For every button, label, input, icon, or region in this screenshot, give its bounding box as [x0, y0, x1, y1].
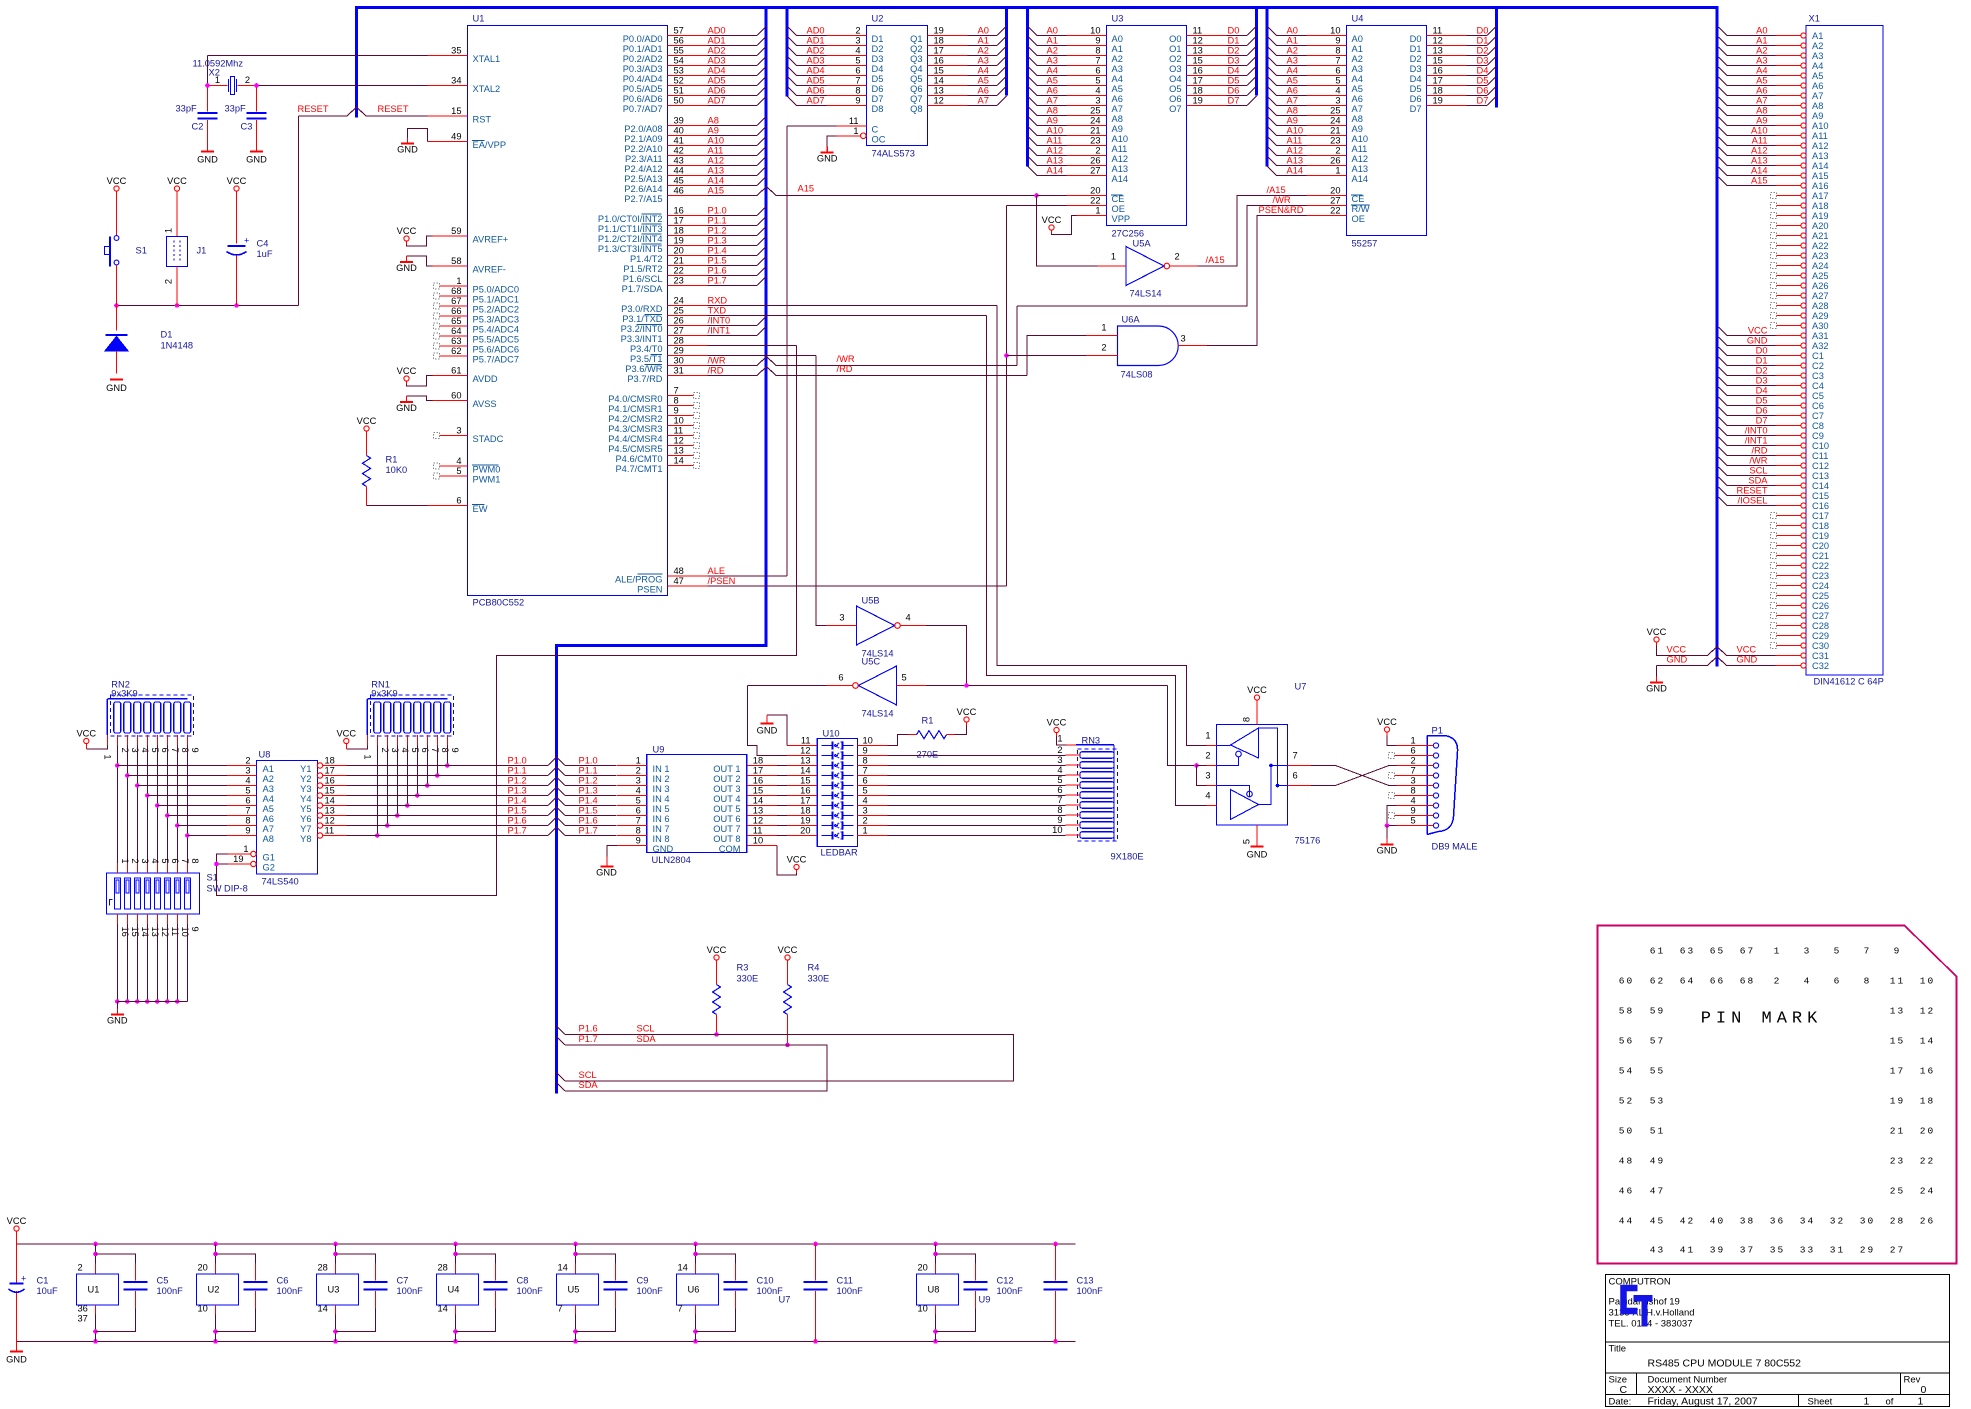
svg-text:1: 1 — [1335, 166, 1340, 176]
wire U9 GND to ground — [607, 846, 617, 857]
wire A12 to bus — [708, 165, 758, 167]
svg-text:4: 4 — [1057, 765, 1062, 775]
svg-text:VCC: VCC — [787, 855, 807, 865]
bus: vertical at x=1496 (U4 data outputs) — [1495, 6, 1498, 108]
svg-text:39: 39 — [674, 116, 684, 126]
wire /WR breakout from bus to X1 C12 — [1719, 457, 1728, 466]
svg-text:13: 13 — [325, 806, 335, 816]
svg-text:AD7: AD7 — [807, 96, 825, 106]
svg-text:D1: D1 — [872, 34, 884, 44]
svg-text:4: 4 — [1804, 976, 1812, 987]
P1 pin 3 — [1433, 783, 1438, 788]
svg-text:50: 50 — [1619, 1126, 1634, 1137]
VCC to P1 pin 1 — [1384, 727, 1389, 732]
svg-text:52: 52 — [1619, 1096, 1634, 1107]
RN3 pin 4 — [1066, 774, 1081, 776]
svg-text:P1.3: P1.3 — [508, 786, 527, 796]
pin mark diagram box — [1598, 926, 1957, 1264]
U3 pin 3 A7 address input — [1028, 97, 1038, 107]
svg-text:29: 29 — [1860, 1245, 1875, 1256]
U10 LED element 1 — [822, 745, 833, 747]
X1 pin A9 — [1801, 113, 1806, 118]
svg-text:AD0: AD0 — [807, 26, 825, 36]
wire P1.1 from bus to U9 IN2 — [557, 767, 566, 776]
junction RN2 col 6 / U8 input row — [155, 803, 160, 808]
svg-text:6: 6 — [1293, 771, 1298, 781]
svg-text:20: 20 — [1090, 186, 1100, 196]
svg-text:A11: A11 — [1112, 144, 1128, 154]
U9 pin 11 OUT 8 — [747, 835, 777, 837]
svg-text:A15: A15 — [708, 186, 725, 196]
svg-text:16: 16 — [1920, 1066, 1935, 1077]
svg-text:53: 53 — [674, 66, 684, 76]
svg-text:31: 31 — [1830, 1245, 1845, 1256]
U3 pin 18 O6 data output to D6 — [1187, 95, 1227, 97]
svg-text:31: 31 — [674, 366, 684, 376]
svg-text:24: 24 — [674, 296, 684, 306]
VCC wire to X1 C31 — [1654, 637, 1659, 642]
svg-text:7: 7 — [1293, 751, 1298, 761]
U9 pin 18 OUT 1 — [747, 765, 777, 767]
svg-text:16: 16 — [934, 56, 944, 66]
svg-text:/INT1: /INT1 — [708, 326, 731, 336]
svg-text:24: 24 — [1090, 116, 1100, 126]
svg-text:23: 23 — [1330, 136, 1340, 146]
svg-text:C7: C7 — [1812, 411, 1824, 421]
U1 pin 5 PWM1 (nc) — [440, 475, 468, 477]
svg-text:74LS08: 74LS08 — [1121, 370, 1153, 380]
svg-text:D2: D2 — [872, 44, 884, 54]
RN3 pin 3 — [1066, 764, 1081, 766]
U4 pin 10 A0 address input — [1268, 27, 1278, 37]
svg-text:17: 17 — [934, 46, 944, 56]
svg-text:16: 16 — [800, 786, 810, 796]
U1 pin 17 P1.1/CT1I/INT3 -> P1.1 — [668, 225, 708, 227]
svg-text:Y3: Y3 — [300, 784, 311, 794]
svg-text:R3: R3 — [737, 963, 749, 973]
svg-text:P4.6/CMT0: P4.6/CMT0 — [615, 454, 662, 464]
svg-text:AD4: AD4 — [708, 66, 726, 76]
U2 pin 6 D5 input from AD4 — [788, 67, 798, 77]
svg-text:7: 7 — [674, 386, 679, 396]
svg-text:8: 8 — [855, 86, 860, 96]
wires RN1 columns down to U8 output rows — [376, 746, 378, 836]
svg-text:VCC: VCC — [167, 176, 187, 186]
wire AD5 to bus — [708, 85, 758, 87]
U4 pin 16 D4 data to bus — [1427, 75, 1467, 77]
svg-text:A11: A11 — [1752, 136, 1768, 146]
svg-text:7: 7 — [1095, 56, 1100, 66]
U9 pin 14 OUT 5 — [747, 805, 777, 807]
junction RN1 col 9 / U8 output row — [445, 763, 450, 768]
svg-text:A4: A4 — [1812, 61, 1823, 71]
svg-text:37: 37 — [1740, 1245, 1755, 1256]
wire P1.3 from bus to U9 IN4 — [557, 787, 566, 796]
U2 pin 8 D7 input from AD6 — [788, 87, 798, 97]
svg-text:27C256: 27C256 — [1112, 229, 1145, 239]
svg-text:25: 25 — [1090, 106, 1100, 116]
svg-text:P4.3/CMSR3: P4.3/CMSR3 — [608, 424, 662, 434]
X1 pin A1 — [1801, 33, 1806, 38]
U4 pin 24 A9 address input — [1268, 117, 1278, 127]
svg-text:2: 2 — [1101, 343, 1106, 353]
wire A10 to bus — [708, 145, 758, 147]
svg-text:+: + — [21, 1274, 26, 1284]
X1 pin C31 — [1801, 653, 1806, 658]
U2 pin 17 Q3 output to A2 — [928, 55, 968, 57]
svg-text:GND: GND — [653, 844, 674, 854]
svg-text:3: 3 — [1411, 776, 1416, 786]
svg-text:C20: C20 — [1812, 541, 1829, 551]
X1 pin A3 — [1801, 53, 1806, 58]
svg-text:5: 5 — [1057, 775, 1062, 785]
U1 pin 18 P1.2/CT2I/INT4 -> P1.2 — [668, 235, 708, 237]
svg-text:65: 65 — [1710, 946, 1725, 957]
svg-text:P1.0: P1.0 — [708, 206, 727, 216]
svg-text:AD2: AD2 — [807, 46, 825, 56]
svg-text:A5: A5 — [978, 76, 989, 86]
wire A10 breakout from bus to X1 A11 — [1719, 127, 1728, 136]
svg-text:17: 17 — [674, 216, 684, 226]
svg-text:Sheet: Sheet — [1808, 1397, 1833, 1408]
U1 pin 43 P2.4/A12 -> A12 — [668, 165, 708, 167]
svg-text:12: 12 — [934, 96, 944, 106]
svg-text:22: 22 — [1920, 1156, 1935, 1167]
svg-text:GND: GND — [197, 155, 218, 165]
P1 pin 8 — [1433, 793, 1438, 798]
svg-text:7: 7 — [430, 748, 440, 753]
wire U8 input A3 row — [137, 785, 227, 787]
P1 pin 5 — [1433, 823, 1438, 828]
wire AD6 to bus — [708, 95, 758, 97]
svg-text:A8: A8 — [263, 834, 274, 844]
svg-text:3: 3 — [130, 748, 140, 753]
junction RN2 col 7 / U8 input row — [165, 813, 170, 818]
U1 pin 62 P5.7/ADC7 (nc) — [440, 355, 468, 357]
svg-text:52: 52 — [674, 76, 684, 86]
svg-text:U5B: U5B — [862, 596, 880, 606]
U7 pin 2 /RE — [1207, 765, 1217, 767]
svg-text:9: 9 — [863, 746, 868, 756]
svg-text:PSEN: PSEN — [637, 585, 662, 595]
svg-text:5: 5 — [150, 748, 160, 753]
U3 pin 5 A5 address input — [1028, 77, 1038, 87]
svg-text:P3.4/T0: P3.4/T0 — [630, 344, 663, 354]
ground to U10 pin 11 — [767, 715, 787, 746]
svg-text:AVREF+: AVREF+ — [473, 235, 509, 245]
U8 pin 17 Y2 output with bubble — [317, 773, 322, 778]
svg-text:OUT 2: OUT 2 — [713, 774, 740, 784]
svg-text:7: 7 — [863, 766, 868, 776]
svg-text:C4: C4 — [1812, 381, 1824, 391]
svg-text:A3: A3 — [263, 784, 274, 794]
svg-text:O1: O1 — [1169, 44, 1181, 54]
U7 pin 8 VCC — [1256, 704, 1258, 725]
junction RN1 col 3 / U8 output row — [385, 823, 390, 828]
U8 pin 9 A8 input — [227, 835, 257, 837]
X1 pin C16 — [1801, 503, 1806, 508]
svg-text:100nF: 100nF — [637, 1286, 664, 1296]
X1 A29 nc stub — [1771, 313, 1777, 319]
U1 pin 14 P4.7/CMT1 (nc) — [668, 465, 694, 467]
svg-text:D3: D3 — [1410, 64, 1422, 74]
svg-text:AD5: AD5 — [708, 76, 726, 86]
svg-text:A8: A8 — [1812, 101, 1823, 111]
U10 pin 7 (right) — [857, 775, 887, 777]
U8 pin 5 A4 input — [227, 795, 257, 797]
X1 C20 nc stub — [1771, 543, 1777, 549]
wire OUT2 to LEDBAR pin 14 — [777, 775, 787, 777]
svg-text:A14: A14 — [1751, 166, 1768, 176]
svg-text:P2.7/A15: P2.7/A15 — [624, 194, 662, 204]
X1 pin C24 — [1801, 583, 1806, 588]
svg-text:/WR: /WR — [1749, 456, 1767, 466]
svg-text:3: 3 — [140, 858, 150, 863]
capacitor C1 10uF — [10, 1283, 24, 1285]
X1 pin C11 — [1801, 453, 1806, 458]
svg-text:9: 9 — [245, 826, 250, 836]
svg-text:/WR: /WR — [1273, 195, 1291, 205]
svg-text:GND: GND — [6, 1355, 27, 1365]
svg-text:IN 7: IN 7 — [653, 824, 670, 834]
inverter U5C 74LS14 (mirrored) — [859, 666, 897, 705]
svg-text:2: 2 — [1335, 146, 1340, 156]
U1 pin 50 P0.7/AD7 -> AD7 — [668, 105, 708, 107]
U1 pin 12 P4.5/CMSR5 (nc) — [668, 445, 694, 447]
U1 pin 41 P2.2/A10 -> A10 — [668, 145, 708, 147]
svg-text:10: 10 — [1052, 825, 1062, 835]
U3 pin 27 A14 address input — [1028, 167, 1038, 177]
svg-text:IN 3: IN 3 — [653, 784, 670, 794]
U1 pin 25 P3.1/TXD — [668, 315, 708, 317]
wire AD3 to bus — [708, 65, 758, 67]
svg-text:16: 16 — [753, 776, 763, 786]
svg-text:J1: J1 — [197, 246, 207, 256]
svg-text:A4: A4 — [1287, 66, 1298, 76]
U9 pin 4 IN 4 — [617, 795, 647, 797]
wire P1.5 to bus — [708, 265, 758, 267]
U10 pin 2 (right) — [857, 825, 887, 827]
svg-text:A9: A9 — [1047, 116, 1058, 126]
wire A15 to U3 CE — [1037, 195, 1067, 197]
svg-text:25: 25 — [1330, 106, 1340, 116]
X1 A30 nc stub — [1771, 323, 1777, 329]
svg-text:PCB80C552: PCB80C552 — [473, 598, 525, 608]
svg-text:41: 41 — [1680, 1245, 1695, 1256]
connector X1 DIN41612 C 64P — [1806, 26, 1883, 676]
svg-text:A13: A13 — [1287, 156, 1304, 166]
wire D5 breakout from bus to X1 C6 — [1719, 397, 1728, 406]
svg-text:A0: A0 — [978, 26, 989, 36]
U3 pin 6 A4 address input — [1028, 67, 1038, 77]
U6A pin 3 output PSEN&RD — [1178, 345, 1207, 347]
U3 pin 2 A12 address input — [1028, 147, 1038, 157]
svg-text:48: 48 — [674, 566, 684, 576]
svg-text:VCC: VCC — [1748, 326, 1768, 336]
wires RN2 columns to U8 inputs and S1 — [116, 746, 118, 864]
svg-text:A9: A9 — [708, 126, 719, 136]
svg-text:19: 19 — [233, 854, 243, 864]
U2 pin 9 D8 input from AD7 — [788, 97, 798, 107]
U7 pin 7 (A) to DB9 — [1288, 765, 1312, 767]
X1 pin C13 — [1801, 473, 1806, 478]
svg-text:C22: C22 — [1812, 561, 1829, 571]
svg-text:38: 38 — [1740, 1216, 1755, 1227]
svg-text:100nF: 100nF — [837, 1286, 864, 1296]
X1 pin A8 — [1801, 103, 1806, 108]
svg-text:21: 21 — [1090, 126, 1100, 136]
svg-text:7: 7 — [558, 1304, 563, 1314]
S1 switch element 1 — [114, 878, 120, 909]
svg-text:A3: A3 — [1287, 56, 1298, 66]
svg-text:C18: C18 — [1812, 521, 1829, 531]
svg-text:47: 47 — [1650, 1186, 1665, 1197]
svg-text:9: 9 — [450, 748, 460, 753]
svg-text:15: 15 — [753, 786, 763, 796]
svg-text:8: 8 — [1864, 976, 1872, 987]
svg-text:33pF: 33pF — [176, 104, 198, 114]
wire OC to ground — [827, 136, 836, 147]
connector P1 DB9 MALE — [1427, 736, 1458, 835]
svg-text:D4: D4 — [872, 64, 884, 74]
svg-text:P1.6: P1.6 — [508, 816, 527, 826]
wire /A15 riser from U5A output to U4 CE — [1198, 196, 1307, 267]
svg-text:18: 18 — [1193, 86, 1203, 96]
svg-text:A4: A4 — [1756, 66, 1767, 76]
svg-text:100nF: 100nF — [157, 1286, 184, 1296]
svg-text:A9: A9 — [1287, 116, 1298, 126]
X1 pin A12 — [1801, 143, 1806, 148]
svg-text:2: 2 — [130, 858, 140, 863]
wire A13 breakout from bus to X1 A14 — [1719, 157, 1728, 166]
wire GND breakout from bus to X1 A32 — [1719, 337, 1728, 346]
svg-text:17: 17 — [753, 766, 763, 776]
svg-text:16: 16 — [325, 776, 335, 786]
svg-text:S1: S1 — [136, 246, 147, 256]
svg-text:A1: A1 — [1287, 36, 1298, 46]
svg-text:C19: C19 — [1812, 531, 1829, 541]
svg-text:IN 4: IN 4 — [653, 794, 670, 804]
svg-text:100nF: 100nF — [277, 1286, 304, 1296]
VCC for J1 — [174, 186, 179, 191]
junction RN1 col 2 / U8 output row — [375, 833, 380, 838]
svg-text:27: 27 — [674, 326, 684, 336]
U2 pin 1 OC output enable with bubble — [861, 133, 867, 139]
svg-text:C21: C21 — [1812, 551, 1829, 561]
svg-text:OUT 1: OUT 1 — [713, 764, 740, 774]
RN3 pin 5 — [1066, 784, 1081, 786]
svg-text:12: 12 — [753, 816, 763, 826]
svg-text:P0.7/AD7: P0.7/AD7 — [623, 104, 663, 114]
VCC for S1 — [114, 186, 119, 191]
svg-text:A6: A6 — [1352, 94, 1363, 104]
svg-text:A28: A28 — [1812, 301, 1829, 311]
U4 pin 3 A7 address input — [1268, 97, 1278, 107]
U2 pin 19 Q1 output to A0 — [928, 35, 968, 37]
U1 pin 15 RST — [428, 115, 468, 117]
wire A13 to bus — [708, 175, 758, 177]
svg-text:7: 7 — [1057, 795, 1062, 805]
wire U5C.6 to LEDBAR pin 12 — [748, 685, 827, 687]
svg-text:GND: GND — [1247, 850, 1268, 860]
svg-text:A7: A7 — [1047, 96, 1058, 106]
svg-text:4: 4 — [245, 776, 250, 786]
U10 LED element 3 — [822, 765, 833, 767]
X1 pin C1 — [1801, 353, 1806, 358]
X1 A23 nc stub — [1771, 253, 1777, 259]
wire A6 breakout from bus to X1 A7 — [1719, 87, 1728, 96]
svg-text:56: 56 — [1619, 1036, 1634, 1047]
svg-text:1: 1 — [1864, 1396, 1870, 1408]
svg-text:7: 7 — [1335, 56, 1340, 66]
X1 pin A17 — [1801, 193, 1806, 198]
U1 pin 4 PWM0 (nc) — [440, 465, 468, 467]
X1 pin C21 — [1801, 553, 1806, 558]
svg-text:34: 34 — [1800, 1216, 1815, 1227]
X1 C27 nc stub — [1771, 613, 1777, 619]
svg-text:+: + — [244, 236, 249, 246]
svg-text:14: 14 — [325, 796, 335, 806]
svg-text:14: 14 — [140, 927, 150, 937]
svg-text:14: 14 — [438, 1304, 448, 1314]
svg-text:C10: C10 — [757, 1276, 774, 1286]
svg-text:5: 5 — [245, 786, 250, 796]
svg-text:Q4: Q4 — [910, 64, 922, 74]
svg-text:6: 6 — [1834, 976, 1842, 987]
switch S1 SW DIP-8 — [107, 873, 200, 914]
svg-text:1: 1 — [1411, 736, 1416, 746]
svg-text:OUT 4: OUT 4 — [713, 794, 740, 804]
svg-text:VCC: VCC — [397, 226, 417, 236]
wire P3.5/T1 riser down to U5B input — [816, 356, 826, 626]
ground at X1 — [1656, 677, 1658, 683]
svg-text:330E: 330E — [808, 974, 830, 984]
wire S1 pin 9 to ground rail — [186, 924, 188, 1002]
wire D1 breakout from bus to X1 C2 — [1719, 357, 1728, 366]
U1 pin 20 P1.4/T2 -> P1.4 — [668, 255, 708, 257]
svg-text:C6: C6 — [1812, 401, 1824, 411]
svg-text:6: 6 — [456, 496, 461, 506]
svg-text:C2: C2 — [192, 122, 204, 132]
junction RN2 col 3 / U8 input row — [125, 773, 130, 778]
U2 pin 12 Q8 output to A7 — [928, 105, 968, 107]
U1 pin 68 P5.1/ADC1 (nc) — [440, 295, 468, 297]
wire AD4 to bus — [708, 75, 758, 77]
U8 pin 14 Y5 output with bubble — [317, 803, 322, 808]
svg-text:3: 3 — [1335, 96, 1340, 106]
X1 pin A14 — [1801, 163, 1806, 168]
X1 C26 nc stub — [1771, 603, 1777, 609]
wire RESET breakout from bus to X1 C15 — [1719, 487, 1728, 496]
svg-text:EW: EW — [473, 504, 488, 514]
capacitor C13 100nF — [1053, 1242, 1058, 1247]
svg-text:GND: GND — [1667, 655, 1688, 665]
X1 pin A30 — [1801, 323, 1806, 328]
svg-text:21: 21 — [674, 256, 684, 266]
svg-text:11: 11 — [849, 116, 859, 126]
U3 pin 15 O3 data output to D3 — [1187, 65, 1227, 67]
svg-text:GND: GND — [396, 263, 417, 273]
X1 C17 nc stub — [1771, 513, 1777, 519]
X1 pin A32 — [1801, 343, 1806, 348]
U1 pin 55 P0.2/AD2 -> AD2 — [668, 55, 708, 57]
svg-text:17: 17 — [1890, 1066, 1905, 1077]
svg-text:X1: X1 — [1809, 14, 1820, 24]
svg-text:C30: C30 — [1812, 641, 1829, 651]
svg-text:56: 56 — [674, 36, 684, 46]
U8 pin 12 Y7 output with bubble — [317, 823, 322, 828]
svg-text:26: 26 — [1920, 1216, 1935, 1227]
